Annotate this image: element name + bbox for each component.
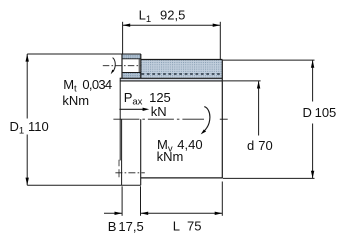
dimension D line lower segment [312, 124, 314, 179]
L arrowhead pointing right [215, 212, 223, 215]
dimension L line [141, 212, 223, 214]
dimension D line upper segment [312, 60, 314, 101]
flange right edge in bottom view [140, 119, 142, 185]
flange right edge [140, 54, 142, 78]
L arrowhead pointing left [141, 212, 149, 215]
dashed thread line inside sleeve band [142, 73, 221, 75]
svg-text:L192,5: L192,5 [139, 8, 186, 26]
dimension d leader line [258, 81, 260, 135]
flange left edge [121, 54, 123, 78]
bottom oil hole centerline (dash-dot) [115, 172, 144, 174]
dimension D1 line upper segment [26, 54, 28, 119]
oil hole centerline (dash-dot) [103, 65, 142, 67]
sleeve band top edge [141, 59, 223, 61]
svg-text:L75: L75 [173, 219, 202, 234]
svg-text:kN: kN [151, 104, 167, 119]
D arrowhead up [311, 60, 314, 68]
dimension D extension line top [223, 59, 315, 61]
D arrowhead down [311, 171, 314, 179]
Pax force arrow [119, 108, 149, 111]
oil hole inner vertical [138, 59, 140, 73]
flange chamfer mark upper [118, 160, 120, 167]
dimension L1 line [123, 24, 221, 26]
shared B/L extension line [140, 186, 142, 216]
flange chamfer mark lower [118, 169, 120, 177]
outer sleeve band fill [141, 60, 223, 79]
B arrowhead pointing right [115, 212, 123, 215]
svg-text:B17,5: B17,5 [108, 219, 144, 234]
dimension L extension line right [221, 182, 223, 216]
part right edge [221, 60, 223, 179]
flange bottom edge with D1 bottom extension line [27, 184, 141, 186]
flange top hatch strip (section) [122, 54, 141, 59]
dimension L1 extension line left [122, 22, 124, 54]
oil hole top edge [122, 58, 141, 60]
body bottom edge (outside view of sleeve) [141, 177, 223, 179]
flange top edge with D1 top extension line [27, 53, 141, 55]
dimension L1 extension line right [219, 22, 221, 60]
inner sleeve thin strip [120, 78, 222, 81]
svg-text:D1110: D1110 [10, 119, 49, 137]
L1 arrowhead right [213, 24, 221, 27]
svg-text:kNm: kNm [62, 93, 89, 108]
svg-text:kNm: kNm [157, 149, 184, 164]
shaft surface line d [120, 80, 222, 82]
centerline tick at part right edge [220, 118, 228, 120]
main shaft centerline (dash-dot) [113, 118, 204, 120]
svg-text:Mt0,034: Mt0,034 [63, 77, 112, 95]
d arrowhead up [257, 81, 260, 89]
D1 arrowhead up [26, 54, 29, 62]
dimension B extension line left [121, 186, 123, 216]
svg-text:d70: d70 [247, 138, 273, 153]
Mt curved arrow [111, 58, 116, 75]
sleeve flange left face lower half [121, 119, 123, 185]
sleeve band bottom edge [120, 77, 222, 79]
Mv curved arrow [201, 107, 210, 135]
dimension B tail left [104, 212, 122, 214]
svg-text:D105: D105 [303, 105, 337, 120]
dimension D extension line bottom [223, 177, 315, 179]
shaft end face line [119, 78, 121, 161]
oil hole bottom edge [122, 72, 141, 74]
D1 arrowhead down [26, 178, 29, 186]
L1 arrowhead left [123, 24, 131, 27]
flange bottom hatch strip (section) [122, 73, 141, 79]
dimension d extension line [223, 80, 261, 82]
dimension D1 line lower segment [26, 135, 28, 186]
